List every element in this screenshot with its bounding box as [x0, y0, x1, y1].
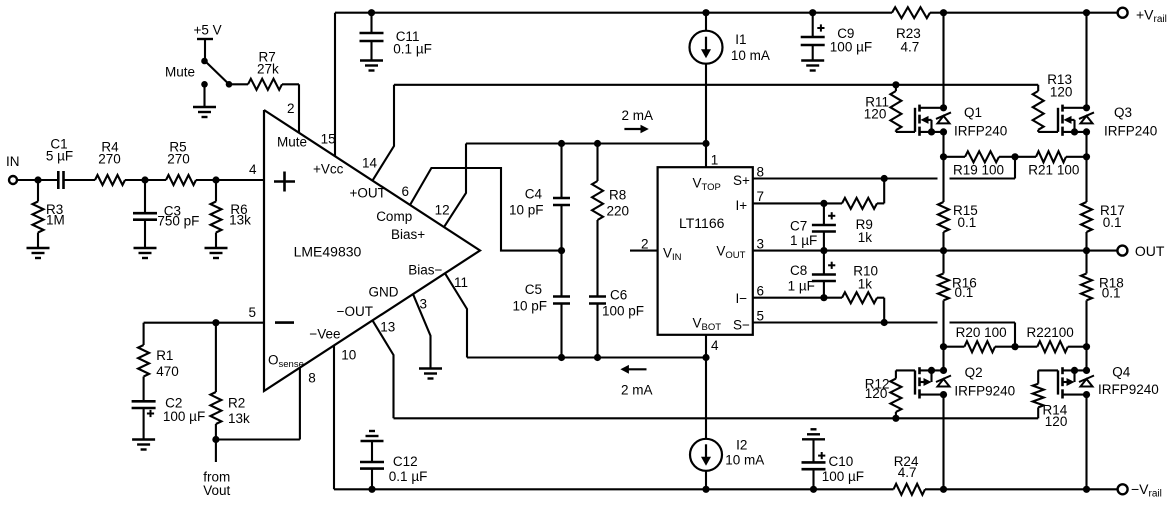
capacitor C11 0.1uF with ground	[360, 13, 432, 71]
svg-text:120: 120	[864, 107, 887, 122]
wire input node	[17, 179, 58, 181]
svg-text:S+: S+	[733, 173, 750, 188]
svg-text:−Vee: −Vee	[309, 327, 340, 342]
resistor R22 100	[1015, 325, 1087, 352]
resistor R11 120	[864, 85, 915, 132]
wire S- pin 5 line	[753, 309, 1015, 347]
node -OUT line / R12 junction	[892, 415, 899, 422]
svg-text:LT1166: LT1166	[679, 215, 725, 231]
svg-text:0.1 µF: 0.1 µF	[393, 42, 432, 57]
svg-text:7: 7	[757, 189, 765, 204]
wire Q1 drain from rail	[942, 13, 944, 108]
label Q2 IRFP9240	[954, 365, 1015, 399]
wire R5 to pin 4	[196, 179, 264, 181]
svg-text:C5: C5	[525, 282, 542, 297]
switch Mute (SPDT)	[165, 58, 232, 88]
resistor R20 100	[944, 325, 1016, 352]
svg-text:R19 100: R19 100	[953, 163, 1004, 178]
node I-/C8 junction	[820, 294, 827, 301]
capacitor C1 5uF	[46, 137, 73, 190]
svg-text:0.1: 0.1	[958, 215, 977, 230]
svg-text:2: 2	[287, 101, 295, 116]
svg-text:IRFP240: IRFP240	[1104, 124, 1157, 139]
svg-text:Bias−: Bias−	[408, 263, 442, 278]
pin label 8 and Osense	[268, 353, 316, 386]
svg-text:11: 11	[454, 275, 468, 290]
wire Q3 drain from rail	[1085, 13, 1087, 108]
svg-text:10 mA: 10 mA	[725, 453, 764, 468]
terminal IN	[6, 154, 20, 184]
power +5V	[194, 23, 222, 62]
wire Q4 source from R22 node	[1085, 347, 1087, 371]
resistor R14 120	[1033, 370, 1068, 429]
svg-text:5: 5	[249, 305, 257, 320]
capacitor C10 100uF with inverted ground	[802, 429, 865, 489]
wire Q2 source from R20 node	[942, 347, 944, 371]
node S-/R10 junction	[881, 319, 888, 326]
wire -OUT pin 13 to lower gate line	[373, 320, 394, 418]
resistor R1 470	[138, 345, 179, 401]
svg-text:I+: I+	[736, 198, 748, 213]
node rail/Q2 source junction	[940, 486, 947, 493]
svg-text:1k: 1k	[858, 230, 873, 245]
transistor Q1 IRFP240	[915, 104, 951, 136]
node rail/Q4 source junction	[1083, 486, 1090, 493]
svg-text:4: 4	[249, 162, 257, 177]
resistor R8 220	[592, 144, 629, 297]
svg-text:4.7: 4.7	[898, 465, 917, 480]
pin label 14 and +OUT	[350, 156, 386, 201]
node I1/upper bias line junction	[702, 140, 709, 147]
svg-text:4.7: 4.7	[901, 40, 920, 55]
svg-text:R2: R2	[228, 396, 245, 411]
svg-text:R21 100: R21 100	[1028, 163, 1079, 178]
capacitor C4 10pF	[509, 144, 570, 251]
svg-text:270: 270	[167, 152, 190, 167]
wire Q1 source to R19 node	[942, 132, 944, 157]
node rail/C9 junction	[809, 9, 816, 16]
wire R2 bottom to Osense pin 8	[216, 368, 300, 462]
svg-text:R8: R8	[609, 188, 626, 203]
node rail/Q3 drain junction	[1083, 9, 1090, 16]
node S+/R9 junction	[881, 175, 888, 182]
svg-text:OUT: OUT	[1135, 243, 1165, 259]
svg-text:S−: S−	[733, 318, 750, 333]
svg-text:1: 1	[711, 153, 719, 168]
pin label 6 and Comp	[376, 184, 412, 224]
node Comp/C4-C5 junction	[558, 247, 565, 254]
svg-text:1 µF: 1 µF	[788, 279, 815, 294]
wire lower bias line 2mA	[467, 356, 706, 358]
svg-text:C7: C7	[790, 219, 807, 234]
transistor Q3 IRFP240	[1058, 104, 1094, 136]
svg-text:Q3: Q3	[1114, 105, 1132, 120]
node OUT/R15-R16 junction	[940, 247, 947, 254]
node rail/C11 junction	[368, 9, 375, 16]
wire Q3 source to R19 line	[1085, 132, 1087, 157]
resistor R9 1k	[842, 179, 884, 246]
svg-text:Comp: Comp	[376, 209, 412, 224]
IC U2 LT1166 body	[658, 167, 753, 335]
svg-text:3: 3	[757, 237, 765, 252]
resistor R19 100	[944, 151, 1016, 177]
svg-text:6: 6	[402, 184, 410, 199]
svg-text:13: 13	[380, 320, 395, 335]
svg-text:5: 5	[757, 309, 765, 324]
svg-text:IRFP240: IRFP240	[954, 124, 1007, 139]
node R21/Q3 source junction	[1083, 153, 1090, 160]
svg-text:+OUT: +OUT	[350, 186, 386, 201]
svg-text:+5 V: +5 V	[194, 23, 222, 38]
capacitor C12 0.1uF with inverted ground	[360, 431, 427, 489]
current arrow 2 mA (lower)	[620, 365, 652, 398]
svg-text:C6: C6	[610, 288, 627, 303]
node C12/bottom rail junction	[368, 486, 375, 493]
wire inverting input (pin 5) node	[144, 323, 264, 345]
wire VOUT pin 3 / OUT rail	[753, 237, 1118, 252]
svg-text:5 µF: 5 µF	[46, 149, 73, 164]
node OUT/R17-R18 junction	[1083, 247, 1090, 254]
terminal +Vrail	[1118, 7, 1167, 26]
label Q3 IRFP240	[1104, 105, 1157, 139]
wire Bias+ pin 12 to upper bias line	[444, 144, 466, 228]
wire I+ pin 7 line	[753, 189, 842, 204]
capacitor C5 10pF	[512, 251, 570, 358]
svg-text:1 µF: 1 µF	[790, 233, 817, 248]
pin label 13 and -OUT	[337, 304, 396, 335]
svg-text:R22100: R22100	[1027, 325, 1074, 340]
pin label 11 and Bias-	[408, 263, 468, 291]
node R18/R22/Q4 junction	[1083, 343, 1090, 350]
current source I2 10mA	[690, 358, 764, 490]
svg-text:Q4: Q4	[1112, 365, 1131, 380]
svg-text:0.1: 0.1	[1103, 215, 1122, 230]
node lower bias/C5 junction	[558, 354, 565, 361]
wire Comp pin 6 to C4/C5 midpoint	[410, 168, 562, 251]
label Q4 IRFP9240	[1098, 365, 1159, 398]
svg-text:IRFP9240: IRFP9240	[954, 384, 1015, 399]
svg-text:−OUT: −OUT	[337, 304, 373, 319]
svg-text:Mute: Mute	[165, 65, 195, 80]
svg-text:0.1 µF: 0.1 µF	[389, 469, 428, 484]
resistor R2 13k	[210, 323, 250, 440]
wire upper bias line 2mA	[466, 142, 706, 144]
svg-text:750 pF: 750 pF	[157, 214, 199, 229]
svg-text:0.1: 0.1	[1102, 286, 1121, 301]
svg-text:Vout: Vout	[203, 483, 230, 498]
svg-text:15: 15	[321, 132, 336, 147]
wire Q2 drain to bottom rail	[942, 395, 944, 490]
pin label 12 and Bias+	[391, 203, 450, 243]
svg-text:I−: I−	[736, 291, 748, 306]
node I2/lower bias line junction	[702, 354, 709, 361]
resistor R10 1k	[842, 264, 884, 323]
svg-text:100 µF: 100 µF	[830, 40, 872, 55]
svg-text:10 mA: 10 mA	[731, 48, 770, 63]
wire C1 to R4	[64, 179, 96, 181]
svg-text:12: 12	[435, 203, 450, 218]
node rail/I1 junction	[702, 9, 709, 16]
node R16/R20/Q2 junction	[940, 343, 947, 350]
svg-text:Q2: Q2	[965, 365, 983, 380]
wire GND pin 3 to ground	[413, 294, 442, 378]
node VOUT/C7-C8 junction	[820, 247, 827, 254]
svg-text:13k: 13k	[228, 411, 250, 426]
op-amp U1 LME49830 triangle	[264, 110, 480, 391]
wire S+ pin 8 line	[753, 157, 1015, 180]
svg-text:Bias+: Bias+	[391, 227, 425, 242]
terminal OUT	[1117, 243, 1165, 259]
svg-text:C4: C4	[525, 187, 543, 202]
node rail/Q1 drain junction	[940, 9, 947, 16]
node R2 top junction	[212, 319, 219, 326]
node Q1 source/R19/R15 junction	[940, 153, 947, 160]
capacitor C8 1uF	[788, 251, 836, 298]
resistor R24	[894, 484, 926, 495]
resistor R21 100	[1015, 151, 1087, 177]
node C3 junction	[141, 176, 148, 183]
current source I1 10mA	[690, 13, 770, 144]
svg-text:14: 14	[362, 156, 378, 171]
wire I- pin 6 line	[753, 284, 842, 299]
ground below mute switch	[193, 84, 216, 117]
non-inverting input + glyph	[274, 172, 295, 192]
wire +Vcc pin 15 to rail	[334, 13, 336, 156]
inverting input - glyph	[275, 321, 294, 324]
wire R4 to R5	[125, 179, 166, 181]
svg-text:R1: R1	[156, 348, 173, 363]
label R24 4.7	[894, 454, 919, 480]
node R6 junction	[212, 176, 219, 183]
svg-text:2 mA: 2 mA	[621, 383, 653, 398]
svg-text:IN: IN	[6, 154, 20, 169]
wire VIN pin 2 stub	[630, 237, 658, 252]
svg-text:I2: I2	[736, 438, 747, 453]
svg-text:R20 100: R20 100	[956, 325, 1007, 340]
wire -OUT gate drive line (to R12/R14)	[394, 417, 1039, 419]
resistor R17 0.1	[1081, 157, 1125, 251]
wire +OUT pin 14 to gate line	[373, 85, 395, 181]
svg-text:120: 120	[1050, 85, 1073, 100]
node +OUT line / R11 junction	[892, 81, 899, 88]
svg-text:120: 120	[1045, 414, 1068, 429]
svg-text:C10: C10	[829, 454, 854, 469]
wire Bias- pin 11 to lower bias line	[445, 273, 467, 357]
svg-text:10: 10	[341, 348, 356, 363]
svg-text:10 pF: 10 pF	[512, 299, 547, 314]
capacitor C3 750pF with ground	[133, 180, 199, 258]
svg-text:0.1: 0.1	[955, 285, 974, 300]
node R20/R22/S- junction	[1011, 343, 1018, 350]
svg-text:13k: 13k	[229, 213, 251, 228]
wire LT1166 pin 1 stub	[706, 144, 718, 168]
capacitor C2 100uF with ground	[132, 396, 206, 450]
svg-text:8: 8	[308, 371, 316, 386]
resistor R3 1M with ground	[27, 180, 65, 258]
transistor Q2 IRFP9240	[915, 367, 951, 399]
svg-text:C8: C8	[790, 263, 807, 278]
svg-text:2: 2	[641, 237, 649, 252]
label R23 4.7	[896, 26, 921, 55]
svg-text:100 µF: 100 µF	[822, 469, 864, 484]
wire -Vee pin 10 to bottom rail	[333, 345, 335, 489]
capacitor C9 100uF with ground	[801, 13, 872, 71]
svg-text:470: 470	[156, 364, 179, 379]
svg-text:2 mA: 2 mA	[622, 108, 654, 123]
svg-text:27k: 27k	[257, 62, 279, 77]
resistor R5 270	[166, 140, 196, 186]
svg-text:C12: C12	[393, 454, 418, 469]
wire mute pin 2	[298, 84, 300, 132]
node rail/C10 junction	[810, 486, 817, 493]
resistor R4 270	[95, 140, 125, 186]
svg-text:6: 6	[757, 284, 765, 299]
node upper bias/C4 junction	[558, 140, 565, 147]
svg-text:120: 120	[865, 386, 888, 401]
wire +V rail (top supply rail)	[335, 12, 1118, 14]
resistor R13 120	[1033, 72, 1073, 132]
resistor R6 13k with ground	[205, 180, 252, 258]
svg-text:10 pF: 10 pF	[509, 203, 544, 218]
resistor R12 120	[865, 370, 915, 418]
svg-text:Q1: Q1	[964, 105, 982, 120]
svg-text:1k: 1k	[858, 277, 873, 292]
svg-text:100 µF: 100 µF	[163, 409, 205, 424]
resistor R18 0.1	[1081, 251, 1124, 347]
node R2/Osense junction, from Vout	[203, 436, 230, 498]
svg-text:220: 220	[607, 204, 630, 219]
svg-text:100 pF: 100 pF	[602, 304, 644, 319]
wire LT1166 pin 4 stub	[706, 335, 719, 358]
label Q1 IRFP240	[954, 105, 1007, 139]
node IN/R3 junction	[34, 176, 41, 183]
node lower bias/C6 junction	[594, 354, 601, 361]
resistor R15 0.1	[938, 157, 978, 251]
pin label 10 and -Vee	[309, 327, 356, 363]
svg-text:4: 4	[711, 338, 719, 353]
node rail/I2 junction	[702, 486, 709, 493]
svg-text:3: 3	[420, 297, 428, 312]
svg-text:IRFP9240: IRFP9240	[1098, 382, 1159, 397]
svg-text:I1: I1	[735, 32, 746, 47]
pin label 15 and +Vcc	[313, 132, 344, 177]
terminal -Vrail	[1118, 481, 1162, 500]
current arrow 2 mA (upper)	[622, 108, 654, 133]
svg-text:8: 8	[757, 165, 765, 180]
svg-text:LME49830: LME49830	[294, 244, 362, 260]
transistor Q4 IRFP9240	[1058, 367, 1094, 399]
svg-text:Mute: Mute	[277, 135, 307, 150]
svg-text:270: 270	[98, 152, 121, 167]
resistor R7 27k	[229, 50, 299, 90]
wire Q4 drain to bottom rail	[1085, 395, 1087, 490]
resistor R16 0.1	[938, 251, 977, 347]
capacitor C6 100pF	[589, 288, 644, 358]
svg-text:1M: 1M	[46, 213, 65, 228]
wire -V rail (bottom supply rail)	[334, 488, 1118, 490]
capacitor C7 1uF	[790, 203, 836, 250]
pin label 3 and GND	[369, 285, 428, 312]
node R19/R21/S+ junction	[1011, 153, 1018, 160]
resistor R23	[892, 7, 930, 18]
node I+/C7 junction	[820, 200, 827, 207]
svg-text:GND: GND	[369, 285, 399, 300]
node upper bias/R8 junction	[594, 140, 601, 147]
svg-text:+Vcc: +Vcc	[313, 162, 344, 177]
wire +OUT gate drive line (to R11/R13)	[394, 84, 1038, 86]
